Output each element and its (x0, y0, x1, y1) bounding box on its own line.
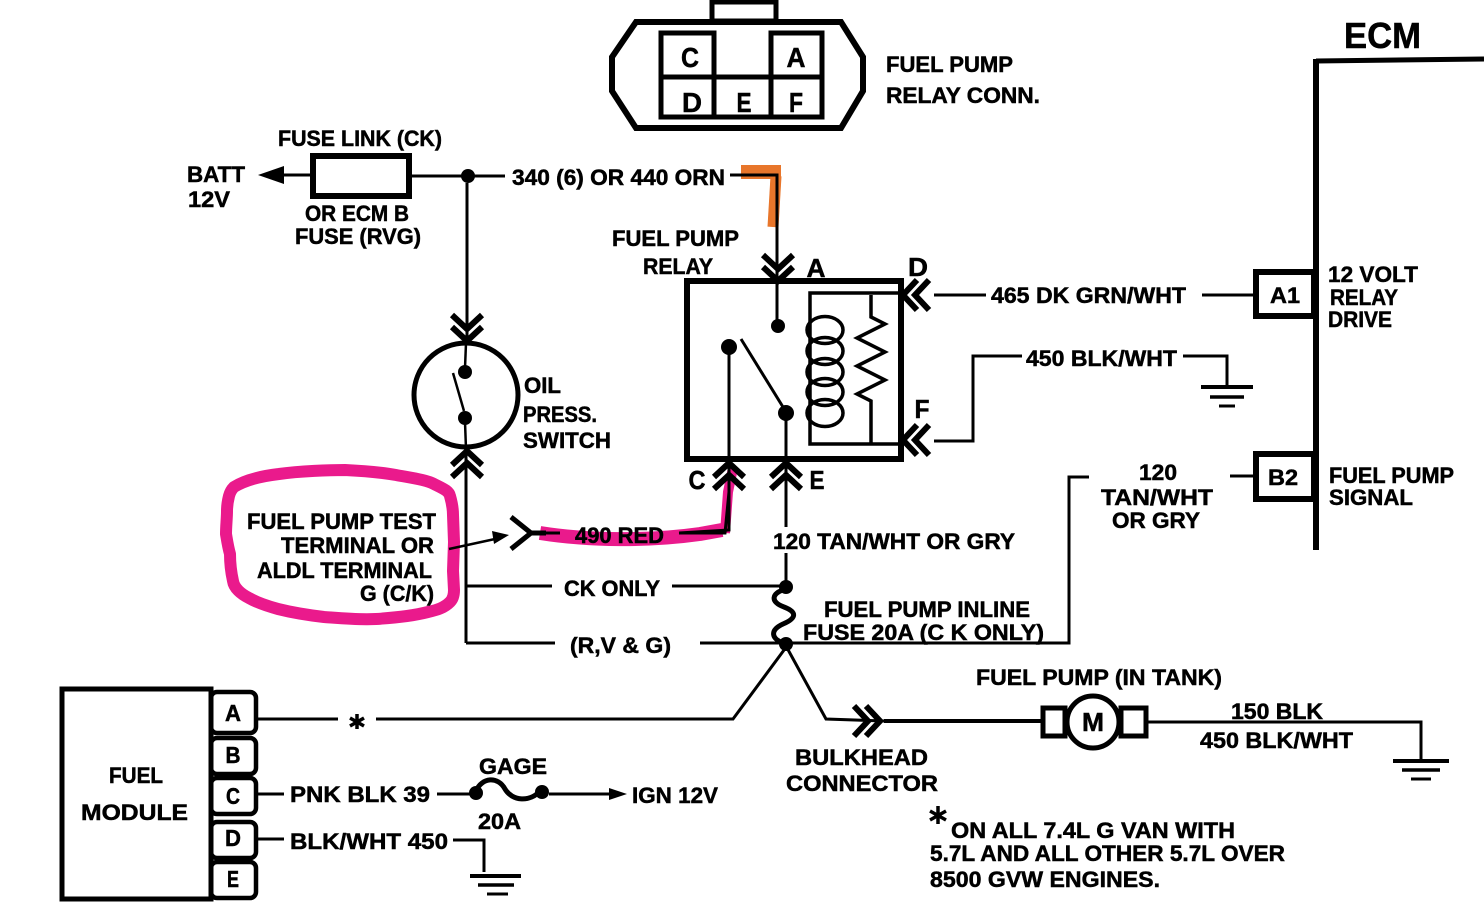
fuel module terminal D (211, 822, 256, 858)
connector J1 cavity D (661, 77, 714, 117)
svg-text:SIGNAL: SIGNAL (1329, 485, 1413, 510)
junction node (461, 169, 475, 183)
svg-text:F: F (789, 87, 803, 118)
svg-text:ON ALL 7.4L G VAN WITH: ON ALL 7.4L G VAN WITH (951, 818, 1235, 843)
svg-text:MODULE: MODULE (81, 800, 188, 825)
chevrons at relay pin E (771, 463, 801, 489)
svg-text:B2: B2 (1268, 465, 1298, 490)
ground symbol at fuel module (470, 876, 521, 894)
svg-text:A1: A1 (1270, 283, 1300, 308)
oil pressure switch contact top (458, 365, 472, 379)
wire junction down to oil pressure switch (466, 183, 469, 343)
wire CK ONLY branch (466, 585, 552, 588)
svg-text:FUEL PUMP (IN TANK): FUEL PUMP (IN TANK) (976, 665, 1222, 690)
wire B2 to inline fuse (792, 477, 1089, 643)
wire 490 RED to relay pin C (679, 492, 729, 533)
chevrons at relay pin F (903, 425, 929, 455)
svg-text:FUSE 20A (C K ONLY): FUSE 20A (C K ONLY) (803, 620, 1044, 645)
svg-text:DRIVE: DRIVE (1328, 307, 1392, 332)
wire and arrow to IGN 12V (549, 793, 611, 796)
wire BLK/WHT to ground (453, 840, 484, 872)
connector J1 tab (712, 2, 776, 21)
gage fuse element (476, 780, 541, 799)
pink highlight around ALDL note (226, 470, 454, 619)
svg-text:5.7L AND ALL OTHER 5.7L OVER: 5.7L AND ALL OTHER 5.7L OVER (930, 841, 1285, 866)
svg-text:F: F (915, 394, 930, 424)
gage fuse node left (469, 786, 483, 800)
ECM boundary vertical (1313, 59, 1319, 550)
inline fuse node bottom (779, 637, 793, 651)
svg-text:M: M (1082, 707, 1104, 737)
svg-text:BATT: BATT (187, 162, 246, 187)
ground symbol at pump (1393, 761, 1449, 779)
svg-text:SWITCH: SWITCH (523, 428, 611, 453)
wire 465 to ECM A1 (1202, 294, 1256, 297)
svg-text:A: A (807, 253, 826, 283)
svg-text:D: D (908, 252, 928, 282)
pump motor M1 body (1067, 696, 1119, 748)
svg-text:120 TAN/WHT OR GRY: 120 TAN/WHT OR GRY (773, 529, 1015, 554)
chevrons at relay pin C (714, 463, 744, 489)
svg-text:150 BLK: 150 BLK (1231, 699, 1323, 724)
ECM terminal B2 box (1256, 454, 1314, 499)
wire 340 ORN to relay pin A (730, 175, 777, 321)
wire fuse to junction (409, 175, 505, 178)
inline fuse node top (779, 580, 793, 594)
svg-text:FUSE LINK (CK): FUSE LINK (CK) (278, 126, 442, 151)
svg-text:12 VOLT: 12 VOLT (1328, 262, 1419, 287)
svg-text:FUSE (RVG): FUSE (RVG) (295, 224, 421, 249)
connector chevrons below oil pressure switch (452, 451, 482, 477)
svg-text:E: E (737, 87, 752, 118)
wire module D stub (256, 838, 284, 841)
wire module A to star (256, 718, 338, 721)
relay K1 coil L1 (807, 317, 843, 427)
svg-text:340 (6) OR 440 ORN: 340 (6) OR 440 ORN (512, 165, 725, 190)
svg-text:8500 GVW ENGINES.: 8500 GVW ENGINES. (930, 867, 1160, 892)
connector chevrons above oil pressure switch (452, 315, 482, 341)
svg-text:G (C/K): G (C/K) (360, 581, 434, 606)
wire stub at test terminal (542, 532, 560, 535)
chevrons at relay pin A (763, 255, 793, 281)
svg-text:A: A (787, 42, 806, 73)
pump motor terminal right (1121, 708, 1146, 736)
svg-text:C: C (226, 783, 240, 809)
relay K1 coil box (810, 293, 901, 444)
svg-text:FUEL PUMP: FUEL PUMP (886, 52, 1013, 77)
pump motor terminal left (1043, 708, 1065, 736)
label 120 TAN/WHT OR GRY (left) (770, 527, 1020, 553)
relay switch arm (741, 339, 783, 407)
svg-text:ECM: ECM (1344, 15, 1421, 56)
svg-text:TERMINAL OR: TERMINAL OR (281, 533, 434, 558)
svg-text:RELAY: RELAY (643, 254, 713, 279)
svg-text:IGN 12V: IGN 12V (632, 783, 718, 808)
wire 450 to ground (1183, 356, 1227, 385)
svg-text:D: D (225, 825, 241, 851)
svg-text:A: A (225, 700, 241, 726)
connector J1 fuel pump relay connector shell (612, 22, 863, 128)
svg-text:OR ECM B: OR ECM B (305, 201, 409, 226)
svg-text:TAN/WHT: TAN/WHT (1101, 485, 1214, 510)
star on wire (350, 714, 364, 729)
wire (R,V &amp; G) to fuse bottom (700, 642, 786, 645)
svg-text:CK ONLY: CK ONLY (564, 576, 660, 601)
svg-text:CONNECTOR: CONNECTOR (786, 771, 938, 796)
wire relay pin E down to fuse junction (785, 418, 788, 590)
svg-text:OIL: OIL (524, 373, 561, 398)
fuel module terminal C (211, 778, 256, 814)
wire oil switch down to CK/RVG branches (465, 449, 468, 643)
svg-text:RELAY CONN.: RELAY CONN. (886, 83, 1040, 108)
connector J1 cavity A (771, 33, 822, 77)
svg-text:490 RED: 490 RED (575, 523, 664, 548)
svg-text:(R,V & G): (R,V & G) (570, 633, 671, 658)
bulkhead connector chevrons (854, 706, 880, 736)
ground symbol at 450 BLK/WHT (1201, 387, 1253, 406)
wire split to bulkhead connector (786, 646, 884, 721)
svg-text:E: E (227, 866, 239, 892)
svg-text:OR GRY: OR GRY (1112, 508, 1200, 533)
arrow to BATT (258, 166, 284, 184)
svg-text:12V: 12V (188, 187, 230, 212)
svg-text:D: D (682, 87, 702, 118)
wire inside oil switch bottom (465, 422, 466, 449)
relay pin A contact node (771, 319, 785, 333)
svg-text:FUEL PUMP TEST: FUEL PUMP TEST (247, 509, 437, 534)
wire pump to ground (1146, 722, 1421, 759)
connector J1 cavity F (771, 77, 822, 117)
wire module C stub (256, 793, 284, 796)
svg-text:120: 120 (1139, 460, 1177, 485)
gage fuse node right (535, 785, 549, 799)
connector J1 cavity C (661, 33, 714, 77)
oil pressure switch body (414, 343, 518, 447)
svg-text:PRESS.: PRESS. (523, 402, 597, 427)
relay pin E contact node (778, 405, 794, 421)
svg-text:ALDL TERMINAL: ALDL TERMINAL (257, 558, 432, 583)
fuel module terminal A (211, 692, 256, 733)
relay K1 outer box (687, 281, 901, 459)
inline fuse element (774, 589, 794, 644)
svg-text:450 BLK/WHT: 450 BLK/WHT (1026, 346, 1178, 371)
wire bulkhead to pump motor (884, 719, 1045, 723)
fuel module terminal E (211, 862, 256, 898)
oil pressure switch arm (453, 373, 464, 411)
fuel module terminal B (211, 738, 256, 774)
fuse link F1 (313, 156, 409, 196)
wire star to bulkhead split (376, 646, 787, 719)
star at footnote (930, 806, 946, 824)
relay common contact node (721, 339, 737, 355)
wire (R,V &amp; G) branch (466, 642, 555, 645)
ECM boundary top (1316, 59, 1484, 61)
svg-text:C: C (681, 42, 699, 73)
connector J1 cavity E (714, 77, 771, 117)
svg-text:C: C (689, 465, 706, 495)
svg-text:465 DK GRN/WHT: 465 DK GRN/WHT (991, 283, 1187, 308)
oil pressure switch contact bottom (458, 411, 472, 425)
svg-text:B: B (226, 742, 241, 768)
orange highlight on wire (741, 165, 781, 179)
wire relay common to pin C (679, 352, 729, 533)
arrow from note to test terminal (449, 539, 495, 549)
svg-text:FUEL PUMP: FUEL PUMP (612, 226, 739, 251)
wire CK ONLY to fuse top (672, 585, 786, 588)
wire relay pin D stub (934, 294, 986, 297)
ECM terminal A1 box (1256, 272, 1314, 316)
svg-text:FUEL PUMP INLINE: FUEL PUMP INLINE (824, 597, 1030, 622)
svg-text:E: E (810, 465, 825, 495)
wire B2 stub (1230, 475, 1256, 478)
fuel module box (62, 689, 211, 899)
relay K1 resistor R1 (857, 295, 885, 443)
svg-text:PNK BLK 39: PNK BLK 39 (290, 782, 430, 807)
svg-text:FUEL: FUEL (109, 763, 163, 788)
test terminal connector symbol (511, 517, 546, 549)
svg-text:BULKHEAD: BULKHEAD (795, 745, 928, 770)
pink highlight on 490 RED wire (540, 530, 722, 539)
svg-text:20A: 20A (478, 809, 521, 834)
svg-text:BLK/WHT 450: BLK/WHT 450 (290, 829, 448, 854)
svg-text:450 BLK/WHT: 450 BLK/WHT (1200, 728, 1354, 753)
wire relay pin F to 450 label (934, 356, 1022, 441)
svg-text:GAGE: GAGE (479, 754, 547, 779)
wire inside oil switch top (465, 343, 466, 368)
chevrons at relay pin D (903, 280, 929, 310)
wire to gage fuse (437, 793, 470, 796)
